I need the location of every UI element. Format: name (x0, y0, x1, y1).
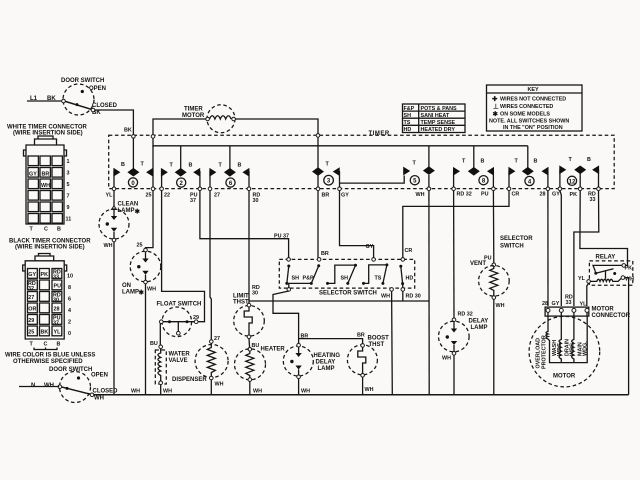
svg-text:CR: CR (405, 248, 413, 254)
heater (235, 339, 286, 395)
svg-text:27: 27 (214, 193, 220, 199)
svg-text:30: 30 (253, 198, 259, 204)
relay (578, 255, 634, 286)
wire 25 to on lamp (146, 191, 154, 395)
svg-text:0: 0 (68, 331, 71, 337)
heating delay lamp (283, 343, 340, 394)
wire YL to clean lamp (113, 191, 115, 395)
wire RD33 to motor connector (574, 191, 599, 306)
svg-text:TIMER: TIMER (369, 131, 390, 137)
svg-text:YL: YL (54, 330, 62, 336)
svg-text:MOTOR: MOTOR (182, 113, 205, 119)
timer box (109, 131, 615, 189)
wire L1 (27, 100, 62, 102)
svg-text:HD: HD (406, 276, 414, 282)
neutral rail WH (94, 394, 629, 396)
svg-text:CLEAN: CLEAN (118, 202, 139, 208)
svg-text:OTHERWISE SPECIFIED: OTHERWISE SPECIFIED (13, 359, 83, 365)
svg-text:GY: GY (366, 244, 374, 250)
timer contact 6 (208, 146, 260, 204)
svg-text:28: 28 (54, 307, 60, 313)
selector switch (279, 258, 420, 300)
svg-text:B: B (189, 163, 193, 169)
svg-text:RD 32: RD 32 (458, 312, 473, 318)
svg-text:POTS & PANS: POTS & PANS (421, 106, 458, 112)
svg-text:TIMER: TIMER (184, 107, 203, 113)
timer motor TM (182, 105, 235, 133)
svg-text:27: 27 (214, 336, 220, 342)
timer contact 5 (403, 146, 435, 198)
wire 22 to float switch (162, 191, 205, 322)
svg-text:25: 25 (28, 330, 34, 336)
svg-text:28: 28 (540, 192, 546, 198)
vent (470, 256, 509, 395)
svg-text:BK: BK (41, 330, 49, 336)
svg-text:DOOR SWITCH: DOOR SWITCH (49, 367, 92, 373)
svg-text:KEY: KEY (528, 87, 539, 93)
svg-text:PROTECTOR: PROTECTOR (542, 335, 548, 369)
svg-text:RELAY: RELAY (596, 255, 616, 261)
svg-text:SELECTOR: SELECTOR (500, 236, 533, 242)
svg-text:WH: WH (163, 389, 172, 395)
svg-text:HEATER: HEATER (261, 347, 286, 353)
white timer connector (7, 125, 88, 233)
motor connector (542, 295, 631, 320)
svg-text:DOOR SWITCH: DOOR SWITCH (61, 78, 104, 84)
svg-text:37: 37 (190, 198, 196, 204)
svg-text:GY: GY (552, 192, 560, 198)
wire contact3 to contact5 (340, 176, 405, 184)
limit thermostat (233, 294, 264, 350)
svg-text:1: 1 (67, 159, 70, 165)
float switch (157, 302, 202, 337)
svg-text:HEATING: HEATING (314, 353, 341, 359)
svg-text:27: 27 (28, 295, 34, 301)
svg-text:PU 37: PU 37 (274, 234, 289, 240)
svg-text:8: 8 (68, 285, 71, 291)
boost thermostat (347, 336, 389, 395)
svg-text:WH: WH (104, 243, 113, 249)
svg-text:12: 12 (569, 179, 576, 185)
wire float switch to water valve (159, 323, 161, 345)
svg-text:MOTOR: MOTOR (592, 307, 615, 313)
wire relay WH to rail (625, 278, 629, 395)
svg-text:33: 33 (566, 300, 572, 306)
svg-text:C: C (44, 342, 48, 348)
key box (487, 85, 583, 131)
wire BR to selector switch (317, 191, 319, 258)
svg-text:TS: TS (404, 120, 411, 126)
wire 28 to motor connector (547, 191, 549, 306)
svg-text:28: 28 (542, 301, 548, 307)
svg-text:37: 37 (53, 320, 59, 326)
motor (529, 316, 600, 387)
svg-text:CONNECTOR: CONNECTOR (592, 313, 631, 319)
svg-text:✱: ✱ (493, 110, 499, 118)
svg-text:RD 32: RD 32 (457, 192, 472, 198)
svg-text:TS: TS (375, 276, 382, 282)
clean lamp (99, 202, 141, 250)
svg-text:WH: WH (147, 287, 156, 293)
svg-text:DELAY: DELAY (316, 360, 336, 366)
wire GY to motor connector (560, 191, 561, 306)
svg-text:SH: SH (341, 276, 349, 282)
svg-text:29: 29 (28, 318, 34, 324)
svg-text:2: 2 (68, 320, 71, 326)
svg-text:WH: WH (365, 387, 374, 393)
on lamp (122, 248, 161, 296)
svg-text:WH: WH (41, 183, 50, 189)
svg-text:ON SOME MODELS: ON SOME MODELS (500, 112, 550, 118)
svg-text:VALVE: VALVE (169, 358, 188, 364)
wire WH selector to rail (391, 291, 394, 395)
svg-text:WIRES NOT CONNECTED: WIRES NOT CONNECTED (500, 97, 566, 103)
legend box pots and pans (403, 104, 466, 133)
wire BK to timer (95, 110, 134, 135)
svg-text:BR: BR (321, 251, 329, 257)
wire timer 5 WH down (428, 191, 430, 395)
svg-text:B: B (481, 159, 485, 165)
delay lamp (439, 312, 489, 395)
svg-text:WATER: WATER (169, 352, 191, 358)
svg-text:WH: WH (381, 294, 390, 300)
svg-text:3: 3 (67, 171, 70, 177)
timer contact 3 (312, 162, 349, 199)
wire CR to selector switch (403, 191, 509, 258)
svg-text:✚: ✚ (492, 95, 498, 103)
svg-text:PK: PK (625, 266, 633, 272)
svg-text:HEATED DRY: HEATED DRY (421, 127, 456, 133)
svg-text:PU: PU (54, 284, 62, 290)
svg-text:GY: GY (341, 193, 349, 199)
svg-text:MOTOR: MOTOR (553, 374, 576, 380)
svg-text:6: 6 (68, 297, 71, 303)
wire PU37 to selector switch (200, 191, 289, 258)
svg-text:LAMP: LAMP (318, 366, 335, 372)
svg-text:WH: WH (301, 389, 310, 395)
svg-text:F&P: F&P (404, 106, 415, 112)
svg-text:TEMP SENSE: TEMP SENSE (421, 120, 456, 126)
wire PU to vent (492, 191, 494, 263)
svg-text:IN THE "ON" POSITION: IN THE "ON" POSITION (503, 125, 563, 131)
svg-text:B: B (238, 163, 242, 169)
svg-text:SH: SH (292, 276, 300, 282)
svg-text:33: 33 (590, 197, 596, 203)
timer contact 2 (160, 146, 202, 204)
svg-text:WDG.: WDG. (557, 341, 563, 356)
svg-text:WH: WH (496, 303, 505, 309)
svg-text:WH: WH (215, 382, 224, 388)
svg-text:32: 32 (28, 286, 34, 292)
dispenser (172, 336, 228, 395)
svg-text:LAMP: LAMP (471, 325, 488, 331)
svg-text:22: 22 (164, 193, 170, 199)
svg-text:HD: HD (404, 127, 412, 133)
svg-text:WH: WH (131, 389, 140, 395)
svg-text:PK: PK (41, 272, 49, 278)
svg-text:BK: BK (124, 128, 132, 134)
svg-text:B: B (534, 159, 538, 165)
svg-text:B: B (121, 162, 125, 168)
wire timer motor loop (153, 119, 318, 167)
svg-text:CR: CR (512, 192, 520, 198)
svg-text:9: 9 (67, 205, 70, 211)
svg-text:GY: GY (28, 272, 36, 278)
svg-text:LAMP: LAMP (122, 290, 139, 296)
svg-text:BR: BR (357, 333, 365, 339)
svg-text:30: 30 (53, 297, 59, 303)
timer contact 4 (507, 146, 550, 198)
svg-text:4: 4 (68, 308, 71, 314)
svg-text:SWITCH: SWITCH (500, 244, 524, 250)
svg-text:SH: SH (404, 113, 412, 119)
door switch S2 (neutral side) (31, 367, 118, 403)
svg-text:WIRE COLOR IS BLUE UNLESS: WIRE COLOR IS BLUE UNLESS (5, 353, 95, 359)
svg-text:B: B (587, 157, 591, 163)
svg-text:✱: ✱ (139, 289, 145, 297)
timer contact 12 (552, 157, 600, 203)
svg-text:25: 25 (137, 243, 143, 249)
svg-text:RD 30: RD 30 (406, 294, 421, 300)
svg-text:LAMP: LAMP (118, 208, 135, 214)
svg-text:DISPENSER: DISPENSER (172, 377, 207, 383)
svg-text:11: 11 (66, 217, 72, 223)
svg-text:GY: GY (552, 301, 560, 307)
svg-text:WH: WH (416, 192, 425, 198)
svg-text:30: 30 (252, 291, 258, 297)
svg-text:(WIRE INSERTION SIDE): (WIRE INSERTION SIDE) (15, 245, 85, 251)
svg-text:WH: WH (94, 396, 104, 402)
svg-text:WDG.: WDG. (570, 341, 576, 356)
svg-text:CLOSED: CLOSED (92, 103, 118, 109)
black timer connector (9, 239, 91, 350)
svg-text:✱: ✱ (135, 208, 141, 216)
svg-text:OPEN: OPEN (91, 373, 108, 379)
water valve (150, 341, 190, 395)
wire 27 to dispenser (210, 191, 211, 340)
svg-text:WH: WH (442, 356, 451, 362)
svg-text:GY: GY (29, 172, 37, 178)
terminal circles on timer top edge (132, 135, 136, 139)
timer contact 8 (452, 146, 495, 198)
svg-text:P&P: P&P (303, 276, 314, 282)
svg-text:THST: THST (369, 342, 385, 348)
svg-text:OPEN: OPEN (89, 86, 106, 92)
svg-text:YL: YL (578, 276, 586, 282)
svg-text:VENT: VENT (470, 261, 486, 267)
svg-text:SELECTOR SWITCH: SELECTOR SWITCH (319, 291, 377, 297)
svg-text:SANI HEAT: SANI HEAT (421, 113, 450, 119)
wire BR heating delay lamp feed (273, 291, 363, 344)
svg-text:PU: PU (481, 192, 489, 198)
svg-text:25: 25 (146, 193, 152, 199)
svg-text:5: 5 (67, 182, 70, 188)
svg-text:WIRES CONNECTED: WIRES CONNECTED (500, 104, 553, 110)
svg-text:C: C (44, 227, 48, 233)
svg-text:BR: BR (322, 193, 330, 199)
svg-text:PK: PK (570, 192, 578, 198)
wire RD30 heater net (249, 291, 429, 301)
svg-text:WDG.: WDG. (583, 341, 589, 356)
svg-text:WH: WH (253, 389, 262, 395)
timer contact 0 (106, 138, 155, 199)
timer bus (153, 145, 528, 147)
svg-text:NOTE. ALL SWITCHES SHOWN: NOTE. ALL SWITCHES SHOWN (489, 119, 569, 125)
svg-text:ON: ON (122, 283, 131, 289)
svg-text:BU: BU (150, 341, 158, 347)
svg-text:BOOST: BOOST (368, 336, 390, 342)
wire RD32 to delay lamp (453, 191, 455, 318)
wire YL relay to motor connector (587, 283, 589, 306)
svg-text:10: 10 (67, 274, 73, 280)
svg-text:B: B (57, 227, 61, 233)
svg-text:BU: BU (252, 343, 260, 349)
svg-text:YL: YL (106, 193, 114, 199)
svg-text:PU: PU (484, 256, 492, 262)
svg-text:THST: THST (233, 300, 249, 306)
svg-text:OR: OR (28, 307, 36, 313)
wire N (19, 386, 59, 388)
svg-text:DELAY: DELAY (469, 319, 489, 325)
svg-text:33: 33 (53, 274, 59, 280)
wire GY to selector switch (340, 191, 374, 258)
svg-text:⊥: ⊥ (493, 103, 499, 111)
svg-text:BR: BR (301, 334, 309, 340)
svg-text:7: 7 (67, 194, 70, 200)
wire PK to relay (580, 191, 628, 266)
svg-text:B: B (57, 342, 61, 348)
svg-text:BR: BR (42, 172, 50, 178)
door switch S1 (L1 side) (30, 78, 118, 116)
wire RD30 to limit thermostat (248, 191, 250, 304)
